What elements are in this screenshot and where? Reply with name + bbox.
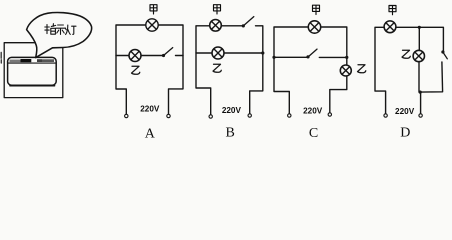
wire D bottom lead bbox=[420, 92, 422, 114]
terminal C right bbox=[328, 113, 331, 116]
lamp 甲 (D) bbox=[384, 21, 396, 33]
switch C fixed stub bbox=[319, 56, 347, 58]
wire C right lower bbox=[330, 76, 347, 113]
junction dot B bbox=[261, 51, 264, 54]
lamp 乙 (C) bbox=[340, 65, 351, 76]
label 甲 (D) bbox=[389, 6, 396, 15]
label 甲 (B) bbox=[214, 5, 221, 14]
wire D left+top bbox=[375, 27, 443, 114]
appliance outer box bbox=[4, 43, 63, 98]
label 乙 (D) bbox=[402, 50, 410, 58]
wire A outer loop bbox=[116, 25, 183, 114]
wire B left+top bbox=[196, 26, 243, 115]
switch C pivot dot bbox=[306, 55, 309, 58]
svg-text:B: B bbox=[226, 126, 235, 141]
switch A pivot dot bbox=[162, 54, 165, 57]
switch D pivot dot bbox=[441, 50, 444, 53]
lamp 乙 (B) bbox=[212, 47, 224, 59]
lamp 甲 (A) bbox=[146, 19, 158, 31]
lamp 甲 (C) bbox=[308, 21, 320, 33]
terminal D left bbox=[384, 114, 387, 117]
wire C left+top bbox=[274, 27, 347, 114]
switch B pivot dot bbox=[242, 24, 245, 27]
bubble text 灯 bbox=[65, 25, 76, 35]
wire B middle branch bbox=[196, 52, 263, 54]
svg-text:C: C bbox=[309, 126, 318, 141]
appliance bottom thick edge bbox=[10, 85, 55, 87]
junction dot D top bbox=[418, 26, 421, 29]
bubble text 指 bbox=[45, 24, 56, 35]
speech bubble 指示灯 bbox=[27, 12, 92, 57]
appliance inner line bbox=[8, 62, 55, 64]
lamp 乙 (A) bbox=[129, 50, 141, 62]
indicator stripe left gray bbox=[10, 60, 21, 63]
junction dot C left bbox=[272, 56, 275, 59]
svg-text:D: D bbox=[400, 126, 410, 141]
terminal A left bbox=[125, 114, 128, 117]
bubble text 示 bbox=[56, 25, 65, 34]
indicator stripe right bbox=[37, 59, 54, 62]
label 乙 (C) bbox=[358, 65, 366, 73]
wire A middle branch bbox=[116, 55, 164, 57]
terminal A right bbox=[167, 114, 170, 117]
junction dot D bottom bbox=[419, 91, 422, 94]
terminal B right bbox=[248, 114, 251, 117]
junction dot C right bbox=[345, 56, 348, 59]
appliance body bbox=[8, 57, 57, 85]
switch B blade bbox=[243, 17, 254, 26]
label 甲 (A) bbox=[150, 5, 157, 14]
wire C middle branch left bbox=[274, 56, 308, 58]
terminal D right bbox=[419, 114, 422, 117]
switch A blade bbox=[164, 48, 173, 56]
svg-text:220V: 220V bbox=[303, 106, 323, 115]
label 甲 (C) bbox=[313, 5, 320, 14]
wire D right lower bbox=[420, 62, 442, 92]
margin artifact dash bbox=[0, 53, 2, 64]
switch B fixed stub + right wire bbox=[250, 26, 263, 114]
switch C blade bbox=[308, 49, 317, 57]
lamp 甲 (B) bbox=[210, 20, 222, 32]
lamp 乙 (D) bbox=[413, 50, 424, 61]
indicator light dark stripe bbox=[21, 59, 32, 62]
switch D blade bbox=[443, 52, 448, 59]
terminal B left bbox=[209, 115, 212, 118]
svg-text:220V: 220V bbox=[140, 105, 160, 114]
svg-text:220V: 220V bbox=[395, 107, 415, 116]
label 乙 (B) bbox=[213, 64, 221, 72]
switch A fixed stub bbox=[176, 55, 184, 57]
svg-text:220V: 220V bbox=[222, 106, 242, 115]
svg-text:A: A bbox=[145, 127, 156, 142]
label 乙 (A) bbox=[132, 66, 140, 74]
wire D lamp branch bbox=[418, 27, 420, 92]
terminal C left bbox=[288, 114, 291, 117]
